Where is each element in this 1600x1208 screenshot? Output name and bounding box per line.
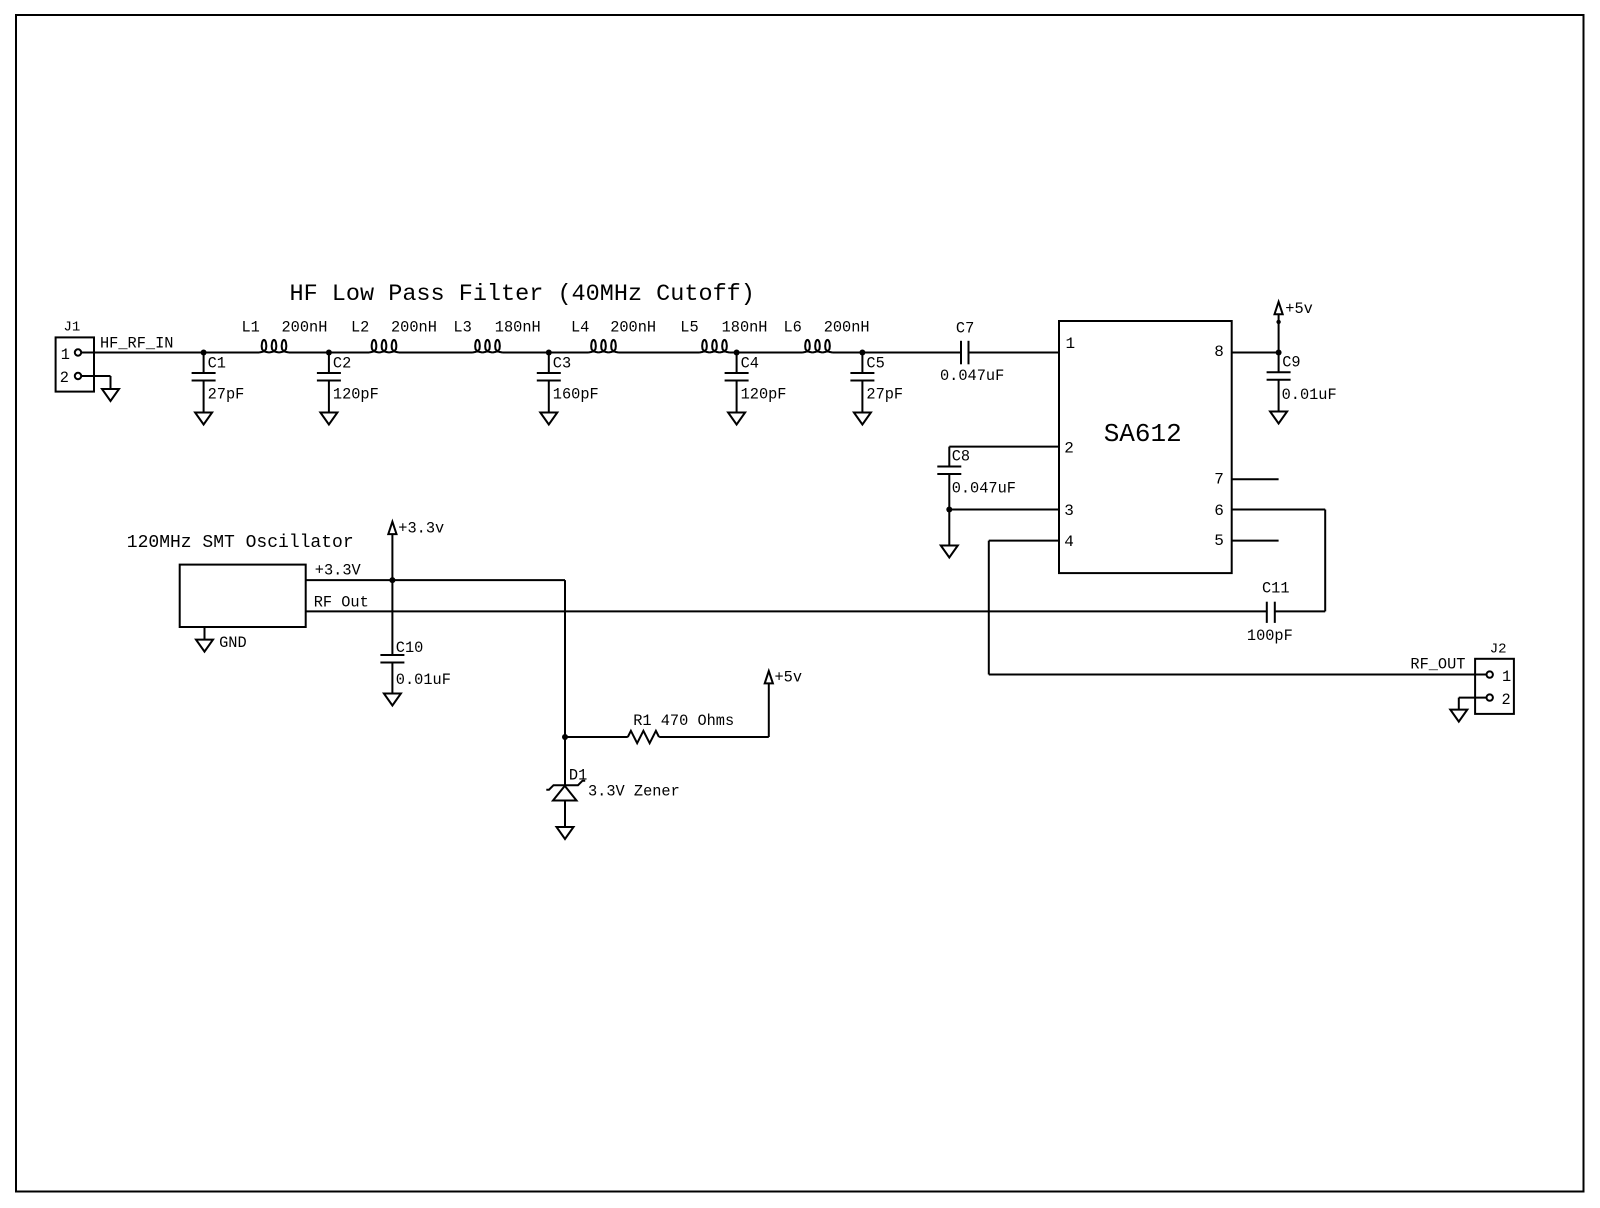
svg-text:8: 8 xyxy=(1214,343,1224,361)
wire L2 to L3 xyxy=(399,352,473,354)
svg-text:C1: C1 xyxy=(208,355,226,373)
svg-text:C8: C8 xyxy=(952,447,970,465)
wire U1 pin 3 to node xyxy=(949,509,1059,511)
capacitor C10 0.01uF xyxy=(380,580,450,693)
connector J2 xyxy=(1475,642,1514,714)
svg-text:C11: C11 xyxy=(1262,579,1290,597)
svg-text:C3: C3 xyxy=(553,355,571,373)
svg-text:+5v: +5v xyxy=(775,668,803,686)
ground below C4 xyxy=(728,413,745,425)
wire oscillator +3.3V rail xyxy=(306,579,565,581)
wire L5 to L6 xyxy=(730,352,803,354)
wire RF Out to C11 xyxy=(306,610,1267,612)
U1 pin number 4 xyxy=(1064,533,1074,551)
svg-text:200nH: 200nH xyxy=(391,319,437,337)
svg-text:200nH: 200nH xyxy=(824,319,870,337)
svg-text:4: 4 xyxy=(1064,533,1074,551)
svg-text:C7: C7 xyxy=(956,320,974,338)
svg-text:120pF: 120pF xyxy=(333,385,379,403)
svg-text:0.01uF: 0.01uF xyxy=(396,671,451,689)
ground GND below oscillator xyxy=(196,627,247,652)
capacitor C5 27pF xyxy=(850,353,903,413)
svg-text:L4: L4 xyxy=(571,319,589,337)
svg-text:1: 1 xyxy=(1502,668,1511,686)
capacitor C11 100pF xyxy=(1247,579,1293,645)
svg-text:160pF: 160pF xyxy=(553,385,599,403)
capacitor C9 0.01uF xyxy=(1267,353,1337,412)
ground at J1 pin 2 xyxy=(102,389,119,401)
inductor L3 180nH xyxy=(453,319,540,353)
svg-text:100pF: 100pF xyxy=(1247,627,1293,645)
svg-text:200nH: 200nH xyxy=(610,319,656,337)
svg-text:GND: GND xyxy=(219,634,247,652)
wire U1 pin 2 to C8 xyxy=(949,447,1059,467)
svg-text:C5: C5 xyxy=(866,355,884,373)
svg-text:7: 7 xyxy=(1214,471,1224,489)
title text xyxy=(290,281,755,308)
svg-text:C2: C2 xyxy=(333,355,351,373)
svg-text:R1 470 Ohms: R1 470 Ohms xyxy=(633,712,734,730)
svg-text:C9: C9 xyxy=(1282,354,1300,372)
svg-text:+3.3v: +3.3v xyxy=(398,519,444,537)
net label HF_RF_IN xyxy=(100,334,173,352)
svg-text:L5: L5 xyxy=(680,319,698,337)
svg-text:C10: C10 xyxy=(396,639,424,657)
svg-text:L3: L3 xyxy=(453,319,471,337)
wire U1 pin 4 to J2 pin 1 xyxy=(989,541,1487,675)
svg-text:3: 3 xyxy=(1064,502,1074,520)
svg-text:L2: L2 xyxy=(351,319,369,337)
ground below C2 xyxy=(320,413,337,425)
wire U1 pin 7 stub xyxy=(1232,478,1279,480)
svg-text:2: 2 xyxy=(1502,691,1511,709)
U1 pin number 6 xyxy=(1214,502,1224,520)
svg-text:120pF: 120pF xyxy=(741,385,787,403)
capacitor C4 120pF xyxy=(725,353,787,413)
svg-text:6: 6 xyxy=(1214,502,1224,520)
wire L4 to L5 xyxy=(619,352,700,354)
capacitor C8 0.047uF xyxy=(937,447,1016,509)
junction node at C1 xyxy=(201,350,207,356)
svg-text:27pF: 27pF xyxy=(866,385,903,403)
wire U1 pin 6 to C11 xyxy=(1232,510,1326,612)
svg-text:L6: L6 xyxy=(784,319,802,337)
ground below C8 xyxy=(941,510,958,558)
oscillator X1 body xyxy=(180,565,306,627)
wire J2 pin 2 to ground xyxy=(1459,698,1487,710)
svg-text:0.047uF: 0.047uF xyxy=(952,479,1016,497)
ground below C5 xyxy=(854,413,871,425)
wire L1 to L2 xyxy=(289,352,369,354)
wire J1 pin2 to ground xyxy=(81,376,110,389)
oscillator pin label RF Out xyxy=(314,594,369,612)
wire +3.3V rail down to zener node xyxy=(564,580,566,737)
diode D1 3.3V Zener xyxy=(546,737,679,827)
junction node at pin 8 xyxy=(1276,350,1282,356)
svg-text:C4: C4 xyxy=(741,355,759,373)
capacitor C3 160pF xyxy=(537,353,599,413)
capacitor C2 120pF xyxy=(317,353,379,413)
resistor R1 470 Ohms xyxy=(565,712,769,743)
svg-text:+3.3V: +3.3V xyxy=(315,562,362,580)
ground below D1 xyxy=(557,827,574,839)
svg-text:1: 1 xyxy=(1066,335,1076,353)
svg-text:200nH: 200nH xyxy=(282,319,328,337)
svg-text:5: 5 xyxy=(1214,532,1224,550)
connector J1 xyxy=(56,320,94,392)
wire J1.1 to L1 xyxy=(81,352,259,354)
wire L6 to C7 xyxy=(833,352,962,354)
svg-text:HF_RF_IN: HF_RF_IN xyxy=(100,334,173,352)
U1 pin number 1 xyxy=(1066,335,1076,353)
wire U1 pin 8 to +5v node xyxy=(1232,352,1279,354)
svg-text:0.01uF: 0.01uF xyxy=(1282,386,1337,404)
junction node at C4 xyxy=(734,350,740,356)
junction node at C8/pin3 xyxy=(946,507,952,513)
svg-text:120MHz SMT Oscillator: 120MHz SMT Oscillator xyxy=(127,533,354,553)
junction node at C2 xyxy=(326,350,332,356)
svg-text:RF Out: RF Out xyxy=(314,594,369,612)
inductor L5 180nH xyxy=(680,319,767,353)
junction node at C10 tap xyxy=(389,577,395,583)
ground below C3 xyxy=(540,413,557,425)
net label RF_OUT xyxy=(1410,655,1465,673)
ground below C9 xyxy=(1270,412,1287,424)
wire U1 pin 5 stub xyxy=(1232,540,1279,542)
inductor L4 200nH xyxy=(571,319,656,353)
ground below C1 xyxy=(195,413,212,425)
U1 pin number 5 xyxy=(1214,532,1224,550)
power symbol +5v at pin 8 xyxy=(1275,300,1313,352)
op-amp U1 SA612 body xyxy=(1059,321,1232,573)
power symbol +5v at R1 xyxy=(765,668,802,737)
junction node at C5 xyxy=(859,350,865,356)
svg-text:2: 2 xyxy=(60,369,69,387)
svg-text:180nH: 180nH xyxy=(495,319,541,337)
svg-text:3.3V Zener: 3.3V Zener xyxy=(588,783,680,801)
inductor L1 200nH xyxy=(242,319,328,353)
svg-text:RF_OUT: RF_OUT xyxy=(1410,655,1465,673)
svg-text:HF Low Pass Filter (40MHz Cuto: HF Low Pass Filter (40MHz Cutoff) xyxy=(290,281,755,308)
svg-text:1: 1 xyxy=(61,346,70,364)
svg-text:SA612: SA612 xyxy=(1104,419,1182,449)
wire C7 to U1 pin 1 xyxy=(969,352,1060,354)
wire L3 to L4 xyxy=(503,352,589,354)
junction node at zener/R1 xyxy=(562,734,568,740)
svg-text:J1: J1 xyxy=(64,320,81,336)
oscillator pin label +3.3V xyxy=(315,562,362,580)
U1 pin number 8 xyxy=(1214,343,1224,361)
inductor L6 200nH xyxy=(784,319,870,353)
U1 pin number 2 xyxy=(1064,439,1074,457)
svg-text:D1: D1 xyxy=(569,766,587,784)
U1 pin number 7 xyxy=(1214,471,1224,489)
svg-text:+5v: +5v xyxy=(1285,300,1313,318)
junction node at C3 xyxy=(546,350,552,356)
svg-text:J2: J2 xyxy=(1490,642,1507,658)
capacitor C7 0.047uF xyxy=(940,320,1004,386)
capacitor C1 27pF xyxy=(192,353,245,413)
ground at J2 pin 2 xyxy=(1450,710,1467,722)
U1 pin number 3 xyxy=(1064,502,1074,520)
inductor L2 200nH xyxy=(351,319,437,353)
svg-text:27pF: 27pF xyxy=(208,385,245,403)
svg-text:0.047uF: 0.047uF xyxy=(940,367,1004,385)
svg-text:L1: L1 xyxy=(242,319,260,337)
ground below C10 xyxy=(384,694,401,706)
oscillator X1 label xyxy=(127,533,354,553)
power symbol +3.3v xyxy=(388,519,444,580)
svg-text:2: 2 xyxy=(1064,439,1074,457)
svg-text:180nH: 180nH xyxy=(722,319,768,337)
